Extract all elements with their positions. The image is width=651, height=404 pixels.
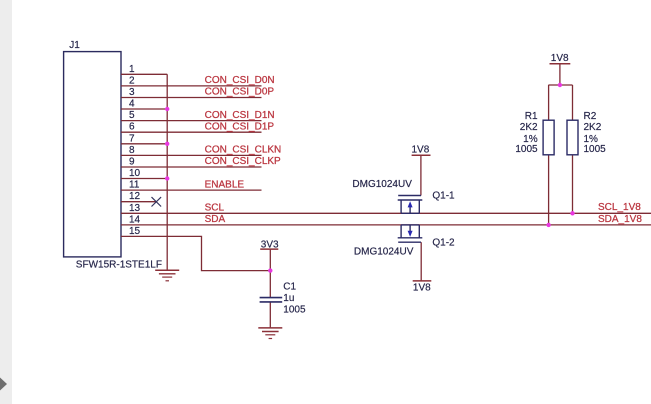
svg-text:SCL_1V8: SCL_1V8	[598, 202, 641, 213]
svg-text:7: 7	[129, 133, 135, 144]
svg-text:3: 3	[129, 87, 135, 98]
svg-text:1: 1	[129, 64, 135, 75]
svg-text:Q1-2: Q1-2	[432, 237, 455, 248]
svg-text:CON_CSI_CLKN: CON_CSI_CLKN	[205, 145, 282, 156]
svg-text:10: 10	[129, 168, 141, 179]
svg-text:1V8: 1V8	[412, 144, 430, 155]
svg-text:CON_CSI_D1P: CON_CSI_D1P	[205, 121, 275, 132]
svg-text:8: 8	[129, 145, 135, 156]
svg-text:SDA: SDA	[205, 214, 226, 225]
svg-text:DMG1024UV: DMG1024UV	[352, 179, 412, 190]
svg-text:13: 13	[129, 203, 141, 214]
svg-text:11: 11	[129, 180, 140, 191]
svg-text:12: 12	[129, 191, 141, 202]
svg-text:CON_CSI_D0N: CON_CSI_D0N	[205, 75, 275, 86]
svg-text:1V8: 1V8	[551, 53, 569, 64]
svg-text:3V3: 3V3	[261, 239, 279, 250]
svg-text:R1: R1	[525, 111, 538, 122]
svg-text:1005: 1005	[515, 144, 538, 155]
svg-text:5: 5	[129, 110, 135, 121]
svg-text:2K2: 2K2	[584, 122, 602, 133]
svg-text:R2: R2	[584, 111, 597, 122]
svg-text:2K2: 2K2	[520, 122, 538, 133]
svg-text:ENABLE: ENABLE	[205, 179, 245, 190]
svg-text:4: 4	[129, 99, 135, 110]
svg-text:DMG1024UV: DMG1024UV	[354, 246, 414, 257]
svg-text:1005: 1005	[283, 305, 306, 316]
svg-text:C1: C1	[283, 282, 296, 293]
svg-text:1V8: 1V8	[413, 283, 431, 294]
svg-text:14: 14	[129, 214, 141, 225]
svg-text:1u: 1u	[283, 293, 294, 304]
svg-text:9: 9	[129, 157, 135, 168]
svg-text:CON_CSI_D0P: CON_CSI_D0P	[205, 87, 275, 98]
svg-text:15: 15	[129, 226, 141, 237]
svg-text:1005: 1005	[584, 144, 607, 155]
svg-text:J1: J1	[69, 40, 80, 51]
svg-text:6: 6	[129, 122, 135, 133]
svg-text:SFW15R-1STE1LF: SFW15R-1STE1LF	[76, 260, 162, 271]
svg-text:2: 2	[129, 75, 135, 86]
svg-text:SDA_1V8: SDA_1V8	[598, 214, 642, 225]
svg-text:CON_CSI_D1N: CON_CSI_D1N	[205, 110, 275, 121]
svg-text:Q1-1: Q1-1	[432, 191, 455, 202]
svg-text:CON_CSI_CLKP: CON_CSI_CLKP	[205, 156, 281, 167]
svg-text:SCL: SCL	[205, 203, 225, 214]
